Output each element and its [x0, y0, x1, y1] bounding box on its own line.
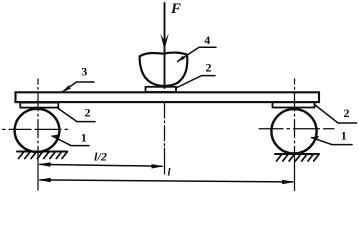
svg-text:2: 2: [85, 106, 91, 120]
svg-text:3: 3: [81, 65, 87, 79]
svg-text:2: 2: [344, 106, 350, 120]
svg-text:4: 4: [204, 33, 210, 47]
svg-text:1: 1: [341, 129, 347, 143]
svg-text:F: F: [170, 1, 181, 17]
svg-text:1: 1: [81, 131, 87, 145]
svg-text:2: 2: [206, 61, 212, 75]
svg-text:l/2: l/2: [94, 150, 107, 164]
